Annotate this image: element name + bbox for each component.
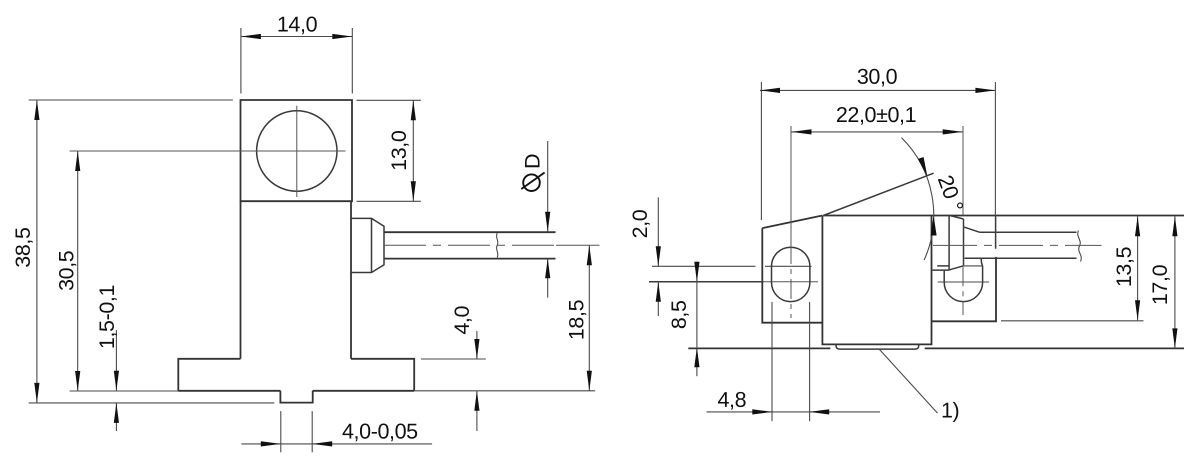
right slot hole (partially hidden): [944, 259, 982, 302]
shaft centerline: [384, 244, 556, 246]
dimension 17,0: [1148, 216, 1178, 348]
dimension 2,0: [628, 197, 661, 316]
ear top slant edge: [762, 216, 822, 229]
svg-text:1,5-0,1: 1,5-0,1: [95, 285, 119, 349]
dimension 13,5: [1112, 216, 1140, 320]
svg-text:22,0±0,1: 22,0±0,1: [836, 103, 916, 127]
svg-text:14,0: 14,0: [277, 12, 318, 36]
shaft centerline (right view): [933, 244, 1102, 246]
bottom tab (sensing face strip): [836, 344, 919, 349]
dimension 1,5-0,1: [95, 285, 119, 431]
angular dimension 20 deg arc: [902, 138, 934, 261]
sensing hole circle: [257, 111, 337, 191]
dimension 4,8: [707, 388, 881, 415]
circle vertical centerline: [296, 106, 298, 197]
svg-text:4,8: 4,8: [717, 388, 746, 412]
note leader line 1): [879, 349, 938, 413]
collar / bushing outline: [351, 218, 384, 272]
svg-text:D: D: [520, 154, 544, 169]
20 deg indicator line: [823, 173, 933, 215]
shaft outline (right view): [965, 232, 1077, 258]
svg-text:1): 1): [941, 399, 959, 423]
dimension 38,5: [11, 100, 274, 403]
dimension 30,5: [55, 151, 179, 391]
svg-text:4,0-0,05: 4,0-0,05: [342, 420, 418, 444]
base front edge line (upper, 2.0 ref): [652, 265, 812, 267]
svg-text:13,0: 13,0: [387, 130, 411, 171]
base bottom edge line: [688, 347, 830, 349]
shaft break squiggle: [497, 233, 498, 258]
arc arrow at slant line: [918, 157, 928, 177]
shaft break squiggle (right view): [1078, 231, 1082, 262]
circle horizontal centerline / 30,5 extension line: [70, 150, 346, 152]
collar (right view): [933, 216, 964, 271]
svg-text:13,5: 13,5: [1112, 246, 1136, 287]
dimension diameter D: [520, 141, 550, 298]
dimension 13,0: [357, 100, 421, 201]
dimension 4,0-0,05: [241, 411, 432, 452]
shaft outline: [384, 232, 556, 258]
head outline (14x13 square): [241, 100, 353, 201]
svg-text:18,5: 18,5: [565, 299, 589, 340]
base front edge right pieces: [938, 281, 989, 283]
dimension 30,0: [760, 65, 996, 249]
left hole centerline: [790, 126, 792, 318]
dimension 18,5: [565, 245, 592, 390]
shaft chamfer: [964, 227, 979, 232]
left ear outline: [762, 228, 822, 323]
dimension 8,5: [667, 262, 700, 376]
top edge line: [823, 215, 1184, 217]
left slot hole: [772, 247, 810, 301]
13,5 reference extension line: [1001, 320, 1144, 322]
body outline: [822, 216, 931, 345]
svg-text:17,0: 17,0: [1148, 264, 1172, 305]
svg-text:4,0: 4,0: [450, 306, 474, 335]
flange bottom extension line (right): [414, 390, 595, 392]
svg-text:2,0: 2,0: [628, 209, 652, 238]
dimension 14,0: [241, 12, 352, 93]
svg-text:8,5: 8,5: [667, 300, 691, 329]
slot width extension lines (4,8): [771, 302, 773, 421]
dimension 22,0 +/- 0,1: [792, 103, 963, 135]
svg-text:30,0: 30,0: [857, 65, 898, 89]
svg-text:38,5: 38,5: [11, 227, 35, 268]
base front edge line (lower, 8.5 ref): [649, 281, 764, 283]
body outline: [241, 201, 352, 359]
svg-text:30,5: 30,5: [55, 250, 79, 291]
bottom tab outline: [280, 391, 312, 403]
arc arrow at horizontal edge: [931, 216, 937, 236]
flange outline: [178, 359, 414, 391]
right ear outline: [932, 257, 997, 321]
right hole centerline: [962, 126, 964, 315]
dimension 4,0 (flange height): [421, 306, 486, 431]
